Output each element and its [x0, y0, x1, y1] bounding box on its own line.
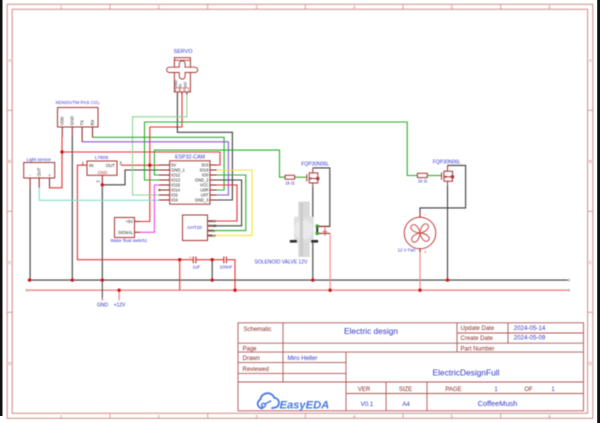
svg-text:Update Date: Update Date	[461, 326, 495, 332]
wire light sensor plus up to 3V3 junction	[50, 152, 63, 188]
wire ESP32 VCC to AHT20 VCC	[213, 185, 238, 221]
svg-text:+12V: +12V	[114, 303, 126, 309]
wire GND net label stub	[101, 280, 103, 298]
wire GND rail horizontal	[30, 279, 569, 281]
plus polarity mark	[324, 228, 326, 236]
wire L7805 IN to +12V line	[77, 165, 193, 260]
svg-text:Drawn: Drawn	[243, 356, 260, 362]
wire Q2 drain to fan minus	[420, 165, 466, 212]
svg-text:RX: RX	[90, 119, 95, 125]
svg-text:GND: GND	[98, 170, 108, 175]
svg-text:FQP30N06L: FQP30N06L	[301, 161, 329, 167]
svg-text:SIG: SIG	[183, 82, 187, 88]
svg-text:12 V Fan: 12 V Fan	[398, 248, 416, 253]
wire 3V3 horizontal from junction to ESP32 3V3	[62, 152, 220, 165]
svg-text:SERVO: SERVO	[174, 49, 193, 55]
svg-text:1k Ω: 1k Ω	[285, 181, 295, 186]
svg-text:1uF: 1uF	[192, 265, 200, 270]
svg-text:VDD: VDD	[60, 117, 65, 126]
wire CO2 GND down to GND rail	[71, 137, 73, 280]
sensor AHT20	[183, 215, 217, 241]
svg-text:Electric design: Electric design	[344, 326, 398, 336]
svg-text:VER: VER	[358, 387, 371, 393]
wire light sensor minus to GND rail	[29, 188, 32, 280]
wire R2 to Q2 gate	[427, 175, 441, 177]
solenoid valve connector J1	[316, 225, 330, 236]
svg-text:Schematic: Schematic	[244, 327, 272, 333]
wire ESP32 IO13 to R2 (fan gate net)	[145, 122, 418, 180]
svg-text:TX: TX	[80, 120, 85, 126]
svg-text:IN: IN	[89, 163, 93, 168]
wire ESP32 IO0 to AHT20 SCL	[213, 175, 246, 231]
wire light sensor OUT to ESP32 IO4	[39, 188, 159, 201]
wire 5V junction up to servo VCC	[150, 94, 182, 165]
wire ESP32 IO16 to AHT20 SDA	[213, 170, 253, 235]
svg-text:A: A	[589, 58, 592, 63]
svg-text:+: +	[424, 249, 427, 254]
svg-text:A: A	[8, 58, 11, 63]
svg-text:FQP30N06L: FQP30N06L	[433, 159, 461, 165]
capacitor C1 1uF	[189, 255, 201, 270]
wire fan plus to +12V rail	[419, 249, 421, 290]
svg-text:IO4: IO4	[171, 198, 178, 203]
svg-text:VCC: VCC	[208, 219, 216, 223]
svg-text:Reviewed: Reviewed	[243, 367, 269, 373]
svg-text:EasyEDA: EasyEDA	[280, 400, 330, 412]
svg-text:SCL: SCL	[208, 229, 215, 233]
regulator L7805	[82, 155, 123, 185]
wire L7805 GND junction to ESP32 GND_1	[102, 170, 159, 185]
wire 12V branch down to +12V rail at x=179.7	[179, 260, 181, 291]
svg-text:SDA: SDA	[208, 234, 216, 238]
rail open ends	[25, 279, 570, 292]
transistor Q1 FQP30N06L	[301, 161, 329, 187]
svg-text:Page: Page	[243, 346, 258, 352]
svg-text:GND_3: GND_3	[195, 198, 209, 203]
EasyEDA logo	[258, 393, 330, 411]
transistor Q2 FQP30N06L	[433, 159, 461, 185]
svg-text:Water float switch1: Water float switch1	[110, 238, 147, 243]
svg-text:SOLENOID VALVE 12V: SOLENOID VALVE 12V	[255, 260, 309, 266]
wire ESP32 IO12 to R1 (solenoid gate net)	[154, 150, 285, 177]
wire 5V net: L7805 OUT to ESP32 5V	[121, 164, 159, 166]
svg-text:+: +	[189, 255, 192, 260]
svg-text:1k Ω: 1k Ω	[418, 179, 428, 184]
wire cap middle node to GND rail	[211, 260, 213, 280]
wire 5V junction down to water float +5V	[140, 165, 150, 221]
svg-text:B: B	[8, 159, 11, 164]
module ESP32-CAM	[158, 154, 216, 204]
servo SERVO	[167, 49, 198, 94]
svg-text:GND: GND	[97, 303, 109, 309]
wire solenoid valve bottom pin to +12V rail	[319, 232, 331, 234]
CO2 sensor XENSIV PAS CO2	[55, 100, 100, 142]
wire ESP32 IO15 to water float SIGNAL	[140, 185, 159, 232]
svg-text:OF: OF	[524, 387, 533, 393]
wire VDD 3V3 net: CO2 VDD down to junction	[61, 137, 63, 152]
capacitor C2 100nF	[219, 257, 232, 270]
svg-text:Create Date: Create Date	[461, 336, 494, 342]
wire CO2 RX to ESP32 U0R	[93, 137, 225, 190]
water float switch1	[110, 218, 147, 244]
svg-text:Miro Heller: Miro Heller	[288, 355, 318, 362]
wire +12V rail horizontal	[27, 289, 569, 291]
wire L7805 GND junction to GND rail	[101, 185, 103, 280]
svg-text:ESP32-CAM: ESP32-CAM	[175, 154, 205, 160]
wire 12V line between caps	[196, 259, 224, 261]
solenoid valve image	[255, 202, 319, 266]
svg-text:GND: GND	[70, 116, 75, 125]
svg-text:CoffeeMush: CoffeeMush	[478, 399, 518, 408]
unconnected pin IO14 end dot	[158, 189, 160, 191]
svg-text:SIZE: SIZE	[399, 387, 412, 393]
svg-text:B: B	[589, 159, 592, 164]
svg-text:L7805: L7805	[95, 155, 109, 161]
black screen edges	[0, 0, 3, 416]
svg-text:OUT: OUT	[37, 167, 42, 176]
wire +12V net label stub	[118, 290, 120, 300]
svg-text:GND: GND	[208, 224, 217, 228]
wire Q1 source to GND rail	[312, 187, 314, 280]
wire 12V line right of 100nF down to +12V rail	[226, 260, 235, 291]
svg-text:ElectricDesignFull: ElectricDesignFull	[432, 367, 499, 377]
svg-text:SIGNAL: SIGNAL	[118, 230, 134, 235]
solenoid valve mounting tabs	[290, 240, 297, 243]
wire servo GND to ESP32 GND_3	[177, 94, 232, 200]
wire ESP32 GND_2 to AHT20 GND	[213, 180, 242, 226]
svg-text:Part Number: Part Number	[461, 346, 495, 352]
junction dots	[28, 150, 449, 292]
svg-text:+5V: +5V	[126, 219, 134, 224]
wire CO2 TX to ESP32 U0T	[82, 142, 228, 195]
svg-text:100nF: 100nF	[219, 265, 232, 270]
svg-text:Light sensor: Light sensor	[26, 157, 51, 162]
fan M1 12V fan	[398, 212, 436, 254]
svg-text:PAGE: PAGE	[445, 387, 461, 393]
light sensor	[24, 157, 55, 188]
wire Q1 drain to solenoid valve top pin	[313, 168, 330, 227]
resistor R2 1k	[417, 173, 428, 183]
svg-text:XENSIVTM PAS CO₂: XENSIVTM PAS CO₂	[55, 100, 100, 105]
svg-text:V0.1: V0.1	[361, 401, 374, 408]
svg-text:AHT20: AHT20	[187, 225, 202, 231]
svg-text:GND: GND	[174, 80, 178, 88]
svg-text:A4: A4	[402, 401, 410, 408]
svg-text:OUT: OUT	[106, 163, 116, 168]
wire R1 to Q1 gate	[295, 176, 307, 178]
svg-text:2024-05-09: 2024-05-09	[514, 335, 546, 342]
wire servo signal to ESP32 IO2	[133, 94, 187, 195]
svg-text:2024-05-14: 2024-05-14	[514, 325, 546, 332]
svg-text:5V: 5V	[179, 83, 183, 88]
wire Q2 source to GND rail	[447, 185, 449, 280]
resistor R1 1k	[285, 175, 295, 185]
